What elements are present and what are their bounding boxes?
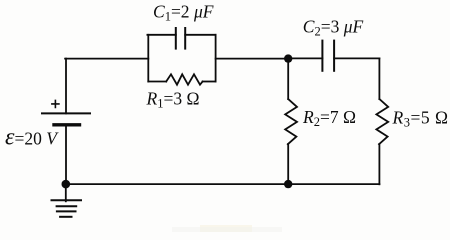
svg-text:C1=2 μF: C1=2 μF bbox=[153, 2, 214, 24]
ground bar 1 bbox=[52, 199, 82, 201]
node C junction dot (bottom left) bbox=[62, 180, 71, 189]
wire bottom horizontal bbox=[66, 183, 380, 185]
capacitor C2 right plate bbox=[333, 41, 335, 71]
wire node A to C2 bbox=[288, 57, 322, 59]
wire R2 top stub bbox=[287, 59, 289, 99]
svg-text:R3=5 Ω: R3=5 Ω bbox=[392, 108, 449, 130]
capacitor C1 left plate bbox=[175, 28, 177, 49]
node B junction dot (bottom middle) bbox=[284, 180, 292, 188]
capacitor C1 right plate bbox=[184, 28, 186, 49]
ground stem bbox=[65, 184, 67, 201]
wire R1 right stub bbox=[203, 81, 216, 83]
ground bar 2 bbox=[57, 205, 77, 207]
wire battery bottom vertical bbox=[65, 127, 67, 184]
resistor R2 bbox=[285, 99, 297, 144]
battery plus sign bbox=[52, 100, 59, 107]
faint artifact bottom center bbox=[200, 225, 252, 232]
wire box right edge bbox=[215, 35, 217, 82]
wire box left edge bbox=[147, 35, 149, 82]
resistor R1 bbox=[166, 74, 202, 84]
wire C2 to right corner bbox=[334, 57, 379, 59]
wire R1 left stub bbox=[148, 81, 166, 83]
wire right vertical bottom bbox=[378, 144, 380, 184]
resistor R3 bbox=[376, 99, 388, 144]
wire R2 bottom stub bbox=[287, 144, 289, 184]
svg-text:ε=20 V: ε=20 V bbox=[5, 125, 59, 151]
wire box top-right segment bbox=[185, 34, 215, 36]
ground bar 3 bbox=[57, 210, 76, 212]
wire right vertical top bbox=[378, 58, 380, 99]
wire mid horizontal to node A bbox=[216, 58, 289, 60]
wire box top-left segment bbox=[147, 34, 175, 36]
svg-text:R2=7 Ω: R2=7 Ω bbox=[302, 107, 356, 129]
capacitor C2 left plate bbox=[321, 41, 323, 71]
svg-text:R1=3 Ω: R1=3 Ω bbox=[146, 89, 200, 111]
battery bottom plate bbox=[54, 123, 80, 126]
node A junction dot bbox=[284, 54, 292, 62]
wire top-left horizontal bbox=[65, 58, 148, 60]
wire battery top vertical bbox=[65, 59, 67, 114]
battery top plate bbox=[42, 112, 90, 114]
ground bar 4 bbox=[60, 216, 71, 218]
svg-text:C2=3 μF: C2=3 μF bbox=[303, 17, 364, 39]
